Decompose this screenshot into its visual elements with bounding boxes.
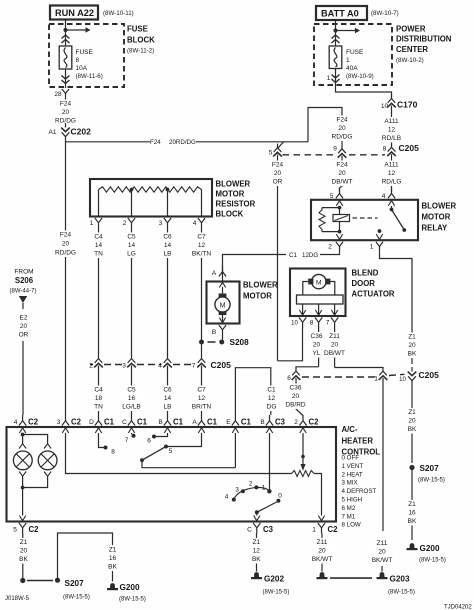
right lamp top fork bbox=[44, 441, 51, 449]
svg-text:C2: C2 bbox=[328, 525, 339, 534]
svg-text:C2: C2 bbox=[28, 418, 39, 427]
svg-text:C6: C6 bbox=[163, 387, 172, 394]
svg-text:20: 20 bbox=[274, 170, 282, 177]
mode switch contact rail arc bbox=[234, 487, 270, 499]
svg-text:C6: C6 bbox=[163, 234, 172, 241]
svg-text:BK/WT: BK/WT bbox=[312, 556, 333, 563]
wire from RUN A22 to fuse 8 bbox=[65, 20, 67, 47]
connector C205 name middle bbox=[211, 360, 232, 370]
svg-text:Z1: Z1 bbox=[408, 334, 416, 341]
svg-text:CENTER: CENTER bbox=[396, 45, 428, 54]
svg-text:Z1: Z1 bbox=[20, 539, 28, 546]
wire A111 from PDC to C170 bbox=[336, 85, 392, 99]
resistor tap junction 1 bbox=[130, 188, 134, 192]
svg-text:G200: G200 bbox=[420, 544, 440, 553]
wire label F24 20 RD/DG at pin 9 bbox=[329, 116, 355, 142]
svg-text:6 M2: 6 M2 bbox=[342, 505, 356, 512]
wire pin 2 C2 to wiper bbox=[302, 433, 304, 464]
svg-text:(8W-10-11): (8W-10-11) bbox=[103, 10, 134, 17]
control pin 5 C2 bbox=[13, 523, 39, 534]
svg-text:F24: F24 bbox=[272, 162, 284, 169]
ground tie bar G203 bbox=[330, 577, 372, 579]
svg-text:BK: BK bbox=[252, 556, 261, 563]
fuse block (dashed) bbox=[49, 24, 124, 87]
svg-text:20: 20 bbox=[62, 109, 70, 116]
svg-text:C1: C1 bbox=[173, 418, 184, 427]
wire F24 from C202 down to A/C control pin 3 bbox=[54, 140, 78, 416]
control pin 1 C2 bbox=[312, 523, 338, 534]
svg-text:(8W-15-5): (8W-15-5) bbox=[119, 597, 146, 603]
svg-text:16: 16 bbox=[128, 395, 136, 402]
connector C205 name lower right bbox=[419, 370, 440, 380]
svg-text:BK: BK bbox=[108, 564, 117, 571]
svg-text:20: 20 bbox=[331, 342, 339, 349]
sheet code J018W-5 bbox=[5, 596, 30, 602]
resistor block pin 3 bbox=[159, 218, 171, 229]
svg-text:Z1: Z1 bbox=[408, 501, 416, 508]
a/c-heater control box bbox=[7, 427, 337, 522]
control connector pin E C1 bbox=[226, 415, 251, 433]
control connector pin 4 C2 bbox=[14, 415, 39, 433]
blend door actuator brush wires bbox=[303, 282, 335, 296]
relay coil parallel resistor bbox=[319, 208, 340, 232]
svg-text:20RD/DG: 20RD/DG bbox=[169, 139, 196, 146]
ground G200 left bbox=[107, 583, 146, 603]
connector C205 name upper bbox=[399, 143, 420, 153]
C205 pin 1 bbox=[374, 367, 387, 386]
connector C205 dashed line middle bbox=[90, 364, 195, 366]
svg-text:(8W-10-9): (8W-10-9) bbox=[346, 73, 374, 80]
svg-text:Z1: Z1 bbox=[253, 539, 261, 546]
blend door actuator motor bbox=[308, 274, 330, 288]
svg-text:DB/WT: DB/WT bbox=[324, 350, 345, 357]
svg-text:RD/DG: RD/DG bbox=[55, 250, 76, 257]
wire F24 20 OR to blend door feed bbox=[267, 161, 289, 361]
svg-text:C1: C1 bbox=[267, 387, 276, 394]
resistor block pin 2 bbox=[123, 218, 135, 229]
wire F24 branch to C205 pin 5 and 9 bbox=[66, 108, 343, 142]
svg-text:C3: C3 bbox=[263, 525, 274, 534]
blower motor relay box bbox=[311, 200, 418, 240]
svg-text:LG: LG bbox=[127, 251, 136, 258]
svg-text:FUSE: FUSE bbox=[346, 49, 364, 56]
svg-text:RELAY: RELAY bbox=[422, 224, 449, 233]
svg-text:4: 4 bbox=[225, 494, 229, 501]
blower switch contact 8 wire from pin D bbox=[99, 433, 104, 448]
wire Z1 16 BK left bbox=[103, 546, 123, 582]
svg-text:DOOR: DOOR bbox=[352, 279, 376, 288]
fuse block label bbox=[127, 25, 155, 55]
resistor block pin 1 bbox=[90, 218, 102, 229]
svg-text:YL: YL bbox=[313, 350, 321, 357]
relay coil bottom junction bbox=[338, 230, 342, 234]
mode switch contact 2 bbox=[249, 481, 259, 490]
wire Z1 20 BK lamp return bbox=[14, 534, 34, 579]
svg-text:12: 12 bbox=[198, 395, 206, 402]
blower motor box bbox=[207, 282, 240, 324]
svg-text:(8W-10-7): (8W-10-7) bbox=[371, 10, 399, 17]
svg-text:C1: C1 bbox=[241, 418, 252, 427]
fuse 8 label bbox=[76, 49, 103, 80]
svg-text:C5: C5 bbox=[127, 234, 136, 241]
relay pin 2 exit chevron bbox=[336, 234, 342, 239]
junction node in fuse block bbox=[63, 28, 67, 32]
wire S207 to G200 jog bbox=[58, 533, 113, 578]
wire C4 18 TN to control pin D bbox=[89, 373, 109, 416]
svg-text:5: 5 bbox=[13, 527, 17, 534]
wire pin 3 C2 to potentiometer bbox=[66, 433, 292, 474]
svg-text:C36: C36 bbox=[290, 385, 302, 392]
svg-text:FUSE: FUSE bbox=[76, 49, 94, 56]
svg-text:LB: LB bbox=[164, 404, 172, 411]
svg-text:BLOCK: BLOCK bbox=[127, 36, 155, 45]
svg-text:12: 12 bbox=[253, 548, 261, 555]
wire C6 14 LB to control pin B bbox=[158, 373, 178, 416]
svg-text:B: B bbox=[260, 419, 264, 426]
svg-text:4: 4 bbox=[382, 193, 386, 200]
left lamp bottom fork bbox=[19, 472, 26, 482]
svg-text:LG/LB: LG/LB bbox=[122, 404, 140, 411]
mode switch contact 1 bbox=[262, 485, 272, 494]
lamp return junction bbox=[21, 486, 25, 490]
lamp return junction wire bbox=[23, 481, 48, 488]
svg-text:RESISTOR: RESISTOR bbox=[216, 200, 256, 209]
svg-text:RD/LG: RD/LG bbox=[382, 179, 402, 186]
blower motor armature bbox=[215, 287, 230, 323]
blower switch contact 7 wire from pin C bbox=[131, 433, 133, 434]
blend door actuator pin 8 bbox=[310, 318, 323, 329]
svg-text:LB: LB bbox=[164, 251, 172, 258]
svg-text:3: 3 bbox=[159, 220, 163, 227]
svg-text:M: M bbox=[220, 303, 226, 310]
blend door actuator pin 10 bbox=[291, 318, 306, 329]
svg-text:3 MIX: 3 MIX bbox=[342, 480, 358, 487]
svg-text:0 OFF: 0 OFF bbox=[342, 455, 360, 462]
potentiometer wiper arrow bbox=[300, 464, 305, 471]
left lamp top fork bbox=[19, 439, 26, 449]
wire E2 20 OR bbox=[14, 314, 34, 416]
svg-text:20: 20 bbox=[338, 170, 346, 177]
C205 pin 4 bbox=[158, 355, 172, 374]
inline label C1 12DG bbox=[289, 252, 318, 259]
wire Z1 20 BK below C205 bbox=[402, 384, 422, 464]
blower motor pin A fork bbox=[212, 266, 226, 278]
wire lamp feed from pin 4 C2 bbox=[23, 433, 48, 441]
relay pin 2 bbox=[328, 242, 343, 253]
reference 8W-10-11 bbox=[103, 10, 134, 17]
blower switch contact 8 bbox=[104, 446, 116, 456]
resistor tap junction 2 bbox=[166, 188, 170, 192]
svg-text:14: 14 bbox=[95, 242, 103, 249]
branch to C205 pin 5 bbox=[278, 142, 284, 149]
feed arrow to other circuits bbox=[66, 27, 91, 33]
control connector pin 3 C2 bbox=[57, 415, 82, 433]
fuse block pin 28 bbox=[54, 89, 69, 100]
connector chevrons fuse 1 output bbox=[332, 75, 340, 83]
svg-text:20: 20 bbox=[313, 342, 321, 349]
svg-text:B: B bbox=[158, 419, 162, 426]
wiper wire node bbox=[301, 455, 305, 459]
svg-text:C1: C1 bbox=[104, 418, 115, 427]
svg-text:C36: C36 bbox=[311, 333, 323, 340]
svg-text:1 VENT: 1 VENT bbox=[342, 463, 364, 470]
blower motor label bbox=[243, 281, 278, 301]
sheet code TJD04202 bbox=[444, 605, 472, 610]
svg-text:A: A bbox=[192, 419, 197, 426]
wire C7 12 BR/TN to control pin A bbox=[189, 373, 215, 416]
relay pin 1 exit chevron bbox=[376, 234, 382, 239]
svg-text:ACTUATOR: ACTUATOR bbox=[352, 290, 395, 299]
svg-text:FUSE: FUSE bbox=[127, 25, 148, 34]
wire F24 20 DB/WT to relay pin 5 bbox=[329, 161, 355, 193]
connector C205 pin 10 bbox=[399, 367, 416, 384]
blower switch contact 6 bbox=[147, 435, 156, 445]
svg-text:E2: E2 bbox=[20, 315, 28, 322]
lamp return exit arrow bbox=[19, 516, 25, 521]
svg-text:8: 8 bbox=[111, 449, 115, 456]
blower motor resistor block box bbox=[90, 179, 212, 217]
blend door actuator pin wires bbox=[303, 304, 335, 316]
svg-text:BLOWER: BLOWER bbox=[216, 180, 251, 189]
ground G202 bbox=[251, 572, 289, 595]
relay pin 5 bbox=[330, 188, 343, 200]
wire Z11 20 DB/WT to C205 pin 1 bbox=[324, 328, 383, 368]
wire Z1 12 BK from pin C C3 bbox=[246, 534, 266, 572]
svg-text:C1: C1 bbox=[137, 418, 148, 427]
svg-text:F24: F24 bbox=[60, 101, 72, 108]
svg-text:C3: C3 bbox=[275, 418, 286, 427]
connector C202 bbox=[49, 123, 92, 140]
wire C5 14 LG bbox=[122, 229, 142, 356]
relay armature arm bbox=[392, 210, 405, 230]
svg-text:12: 12 bbox=[198, 242, 206, 249]
svg-text:1: 1 bbox=[262, 485, 266, 492]
svg-text:8: 8 bbox=[76, 57, 80, 64]
relay pin 4 entry chevron bbox=[388, 201, 394, 206]
resistor element chain bbox=[99, 187, 202, 192]
svg-text:OR: OR bbox=[19, 332, 29, 339]
svg-text:10: 10 bbox=[399, 377, 406, 383]
blend door exit chevron 8 bbox=[315, 310, 321, 315]
power distribution center (dashed) bbox=[314, 24, 392, 85]
connector C205 dashed line upper bbox=[283, 154, 386, 156]
svg-text:7: 7 bbox=[326, 320, 330, 327]
potentiometer element bbox=[292, 471, 315, 477]
ground G203 bbox=[377, 572, 415, 595]
svg-text:2: 2 bbox=[123, 220, 127, 227]
C205 pin 3 bbox=[122, 355, 136, 374]
svg-text:C2: C2 bbox=[309, 418, 320, 427]
blower switch contact 6 wire from pin B bbox=[156, 433, 168, 437]
blower switch wiper arm bbox=[142, 447, 165, 460]
wire relay pin 1 to ground Z1 bbox=[380, 252, 413, 330]
wire blower motor pin A bbox=[222, 264, 224, 282]
svg-text:12: 12 bbox=[268, 395, 276, 402]
a/c-heater control label bbox=[342, 425, 381, 457]
connector chevrons fuse 8 output bbox=[62, 76, 70, 84]
svg-text:BLOCK: BLOCK bbox=[216, 210, 244, 219]
svg-text:F24: F24 bbox=[336, 117, 348, 124]
relay pin 5 entry chevron bbox=[336, 201, 342, 206]
relay armature tip contact bbox=[402, 228, 406, 232]
svg-text:7 M1: 7 M1 bbox=[342, 513, 356, 520]
svg-text:A111: A111 bbox=[384, 118, 399, 125]
blend door exit chevron 10 bbox=[299, 310, 305, 315]
svg-text:C: C bbox=[247, 527, 252, 534]
svg-text:C205: C205 bbox=[399, 143, 420, 153]
svg-text:TN: TN bbox=[94, 404, 103, 411]
svg-text:BR/TN: BR/TN bbox=[192, 404, 212, 411]
wire lamp return to pin 5 C2 bbox=[22, 488, 24, 516]
mode switch wiper arm bbox=[257, 502, 277, 512]
svg-text:F24: F24 bbox=[60, 232, 72, 239]
C205 pin 2 bbox=[89, 355, 103, 374]
svg-text:2: 2 bbox=[89, 363, 93, 370]
svg-text:DB/WT: DB/WT bbox=[332, 179, 353, 186]
svg-text:C205: C205 bbox=[419, 370, 440, 380]
ignition feed RUN A22 bbox=[50, 6, 98, 20]
blend door actuator box bbox=[290, 269, 346, 317]
svg-text:C: C bbox=[122, 419, 127, 426]
svg-text:3: 3 bbox=[57, 419, 61, 426]
splice S207 left bbox=[20, 578, 90, 601]
blower switch wiper pivot bbox=[140, 458, 144, 462]
svg-text:Z1: Z1 bbox=[408, 409, 416, 416]
svg-text:20: 20 bbox=[20, 548, 28, 555]
svg-text:RUN A22: RUN A22 bbox=[55, 8, 94, 18]
blower motor entry chevron A bbox=[219, 282, 225, 287]
svg-text:7: 7 bbox=[192, 363, 196, 370]
wire C5 16 LG/LB to control pin C bbox=[119, 373, 145, 416]
battery feed BATT A0 bbox=[316, 6, 367, 20]
C205 pin 8 bbox=[383, 143, 396, 162]
svg-text:12DG: 12DG bbox=[302, 252, 318, 259]
fuse F8 10A bbox=[59, 46, 72, 69]
control connector pin B C3 bbox=[260, 415, 285, 433]
blower switch contact 5 bbox=[164, 445, 173, 456]
svg-text:BK: BK bbox=[408, 426, 417, 433]
svg-text:1: 1 bbox=[370, 244, 374, 251]
ground stub Z11 right bbox=[381, 566, 383, 572]
S206 feed triangle bbox=[19, 296, 27, 309]
svg-text:5: 5 bbox=[169, 448, 173, 455]
svg-text:BATT A0: BATT A0 bbox=[321, 9, 359, 19]
svg-text:20: 20 bbox=[378, 549, 386, 556]
svg-text:A/C-: A/C- bbox=[342, 425, 358, 434]
svg-text:(8W-15-5): (8W-15-5) bbox=[388, 590, 415, 596]
svg-text:J018W-5: J018W-5 bbox=[5, 596, 30, 602]
svg-text:Z1: Z1 bbox=[109, 547, 117, 554]
junction node in PDC bbox=[333, 28, 337, 32]
svg-text:4 DEFROST: 4 DEFROST bbox=[342, 488, 377, 495]
svg-text:HEATER: HEATER bbox=[342, 437, 374, 446]
blower motor exit chevron B bbox=[219, 318, 225, 323]
fuse 1 output pin 1 bbox=[327, 69, 336, 86]
svg-text:8 LOW: 8 LOW bbox=[342, 522, 361, 529]
svg-text:F24: F24 bbox=[336, 162, 348, 169]
wire mode wiper to pin C C3 bbox=[256, 512, 258, 515]
svg-text:10A: 10A bbox=[76, 65, 88, 72]
blower switch contact 7 bbox=[125, 434, 136, 444]
svg-text:DB/RD: DB/RD bbox=[285, 402, 306, 409]
wire F24 20 RD/DG label bbox=[54, 100, 78, 126]
connector chevrons below BATT A0 bbox=[332, 35, 340, 43]
ground stub Z11 center bbox=[321, 566, 323, 572]
wire C36 20 YL to C205 pin 6 bbox=[296, 328, 324, 369]
control pin C C3 bbox=[247, 523, 273, 534]
svg-text:1: 1 bbox=[327, 75, 331, 82]
svg-text:20: 20 bbox=[338, 125, 346, 132]
svg-text:C1: C1 bbox=[207, 418, 218, 427]
svg-text:Z11: Z11 bbox=[377, 540, 388, 547]
svg-text:1: 1 bbox=[374, 376, 378, 383]
wire S208 to C205 pin 7 bbox=[201, 344, 203, 355]
power distribution center label bbox=[396, 25, 452, 65]
wire C4 14 TN bbox=[89, 229, 109, 356]
svg-text:OR: OR bbox=[273, 179, 283, 186]
wire A111 12 RD/LB bbox=[379, 113, 405, 145]
blend door exit chevron 7 bbox=[331, 310, 337, 315]
connector chevrons below RUN A22 bbox=[62, 35, 70, 43]
wire label Z1 20 BK upper bbox=[402, 330, 422, 364]
svg-text:6: 6 bbox=[147, 438, 151, 445]
lamp feed junction bbox=[21, 433, 25, 437]
wire fuse 8 output bbox=[65, 69, 67, 88]
svg-text:C4: C4 bbox=[94, 387, 103, 394]
wire Z1 16 BK right bbox=[402, 470, 422, 540]
svg-text:G203: G203 bbox=[390, 575, 410, 584]
fuse F1 40A bbox=[329, 46, 342, 69]
svg-text:Z11: Z11 bbox=[317, 539, 328, 546]
wire Z11 20 BK/WT from pin 1 C2 bbox=[308, 534, 336, 567]
svg-text:20: 20 bbox=[62, 241, 70, 248]
svg-text:TN: TN bbox=[94, 251, 103, 258]
svg-text:DISTRIBUTION: DISTRIBUTION bbox=[396, 35, 452, 44]
svg-text:7: 7 bbox=[125, 437, 129, 444]
svg-text:20: 20 bbox=[408, 342, 416, 349]
svg-text:C4: C4 bbox=[94, 234, 103, 241]
svg-text:D: D bbox=[89, 419, 94, 426]
relay coil bbox=[333, 215, 350, 222]
wire Z11 from C205 pin 1 down right side bbox=[368, 386, 396, 565]
splice S207 right bbox=[409, 464, 445, 484]
relay coil branch wire bbox=[339, 206, 341, 233]
svg-text:S207: S207 bbox=[420, 464, 440, 473]
svg-text:20: 20 bbox=[292, 393, 300, 400]
svg-text:14: 14 bbox=[164, 242, 172, 249]
svg-text:20: 20 bbox=[408, 418, 416, 425]
svg-text:RD/DG: RD/DG bbox=[332, 134, 353, 141]
ground symbol center bbox=[317, 572, 328, 578]
svg-text:MOTOR: MOTOR bbox=[422, 213, 451, 222]
svg-text:2: 2 bbox=[328, 244, 332, 251]
illumination lamp left bbox=[13, 451, 32, 470]
C205 pin 6 bbox=[287, 367, 300, 386]
C205 pin 7 bbox=[192, 355, 206, 374]
svg-text:MOTOR: MOTOR bbox=[216, 190, 245, 199]
wire F24 OR to blend door actuator pin 10 bbox=[278, 328, 303, 361]
svg-text:16: 16 bbox=[408, 510, 416, 517]
svg-text:M: M bbox=[316, 279, 322, 286]
blower motor resistor block label bbox=[216, 180, 256, 219]
svg-text:S208: S208 bbox=[230, 338, 250, 347]
relay pin 4 wire to armature bbox=[391, 206, 393, 209]
wire wiper to pin E C1 bbox=[142, 433, 235, 468]
svg-text:3: 3 bbox=[235, 487, 239, 494]
svg-text:1: 1 bbox=[90, 220, 94, 227]
svg-text:BLOWER: BLOWER bbox=[422, 202, 457, 211]
svg-text:POWER: POWER bbox=[396, 25, 426, 34]
